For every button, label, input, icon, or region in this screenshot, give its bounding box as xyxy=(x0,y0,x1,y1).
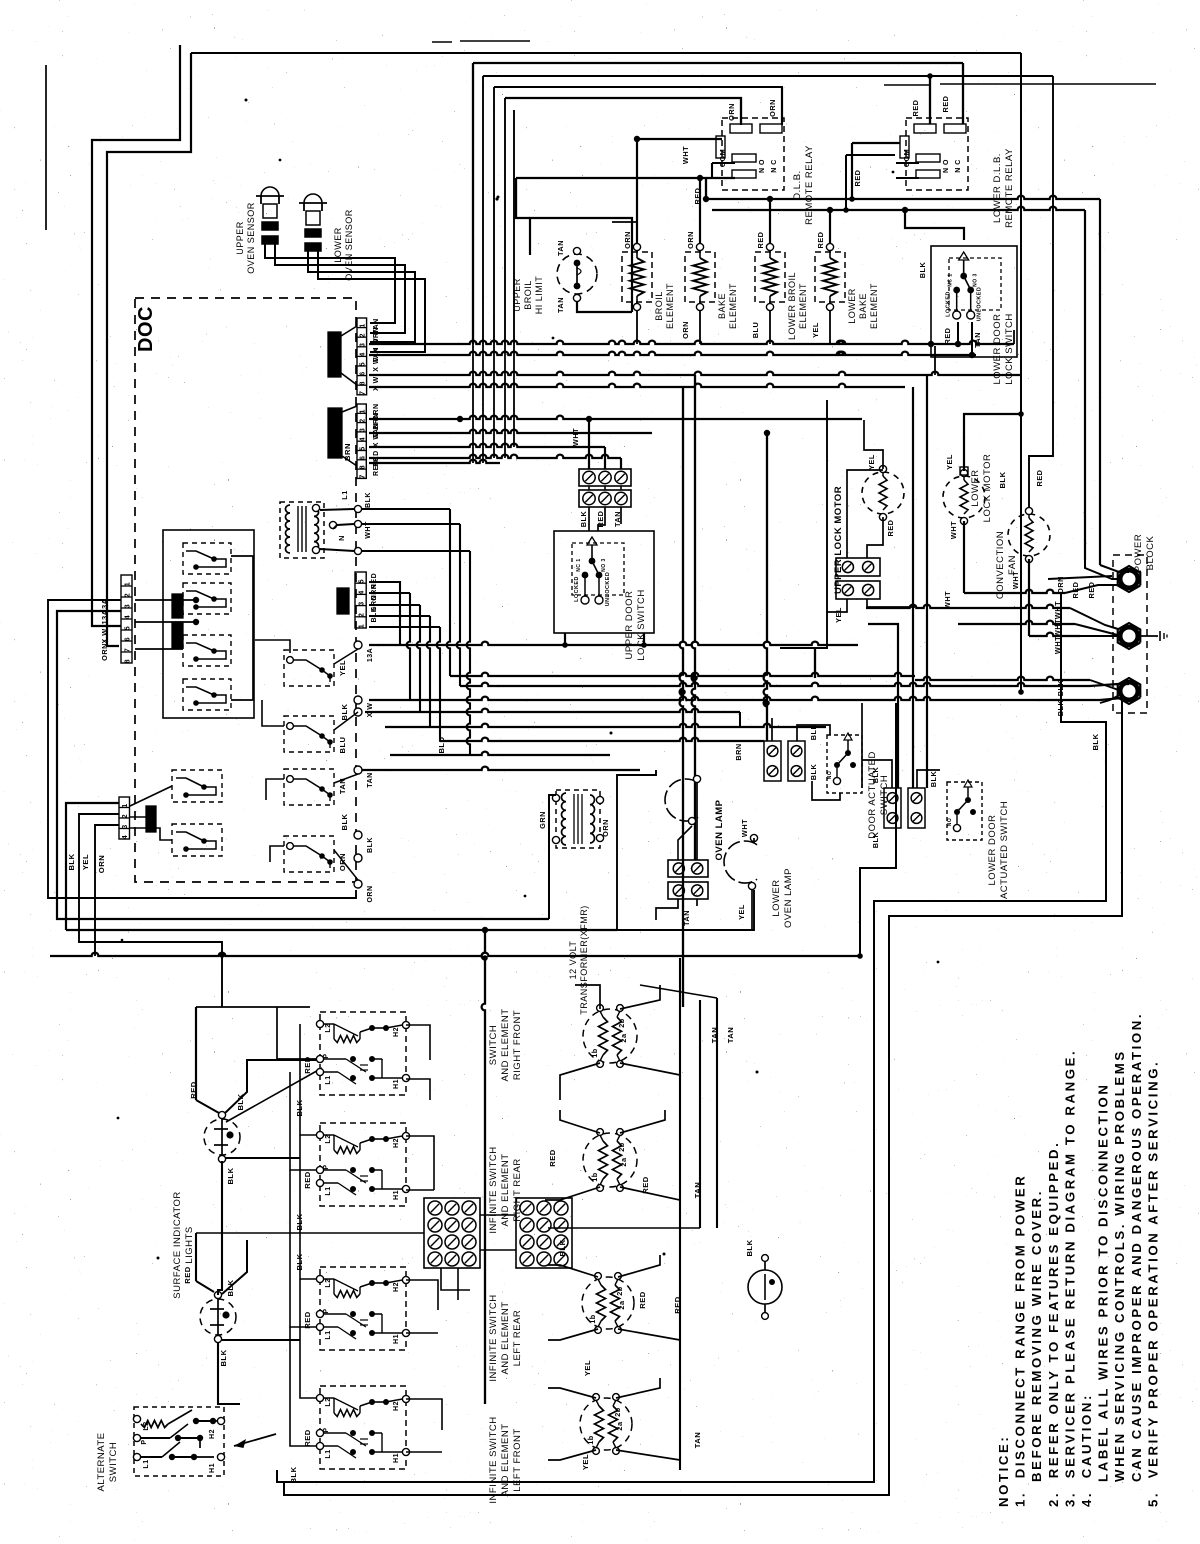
relay K4 (lower D.L.B. remote) xyxy=(906,118,968,190)
lower door lock switch xyxy=(931,246,1017,357)
wire relay bus pair A xyxy=(706,196,1100,199)
wire top nested run 2 xyxy=(472,63,474,344)
connector P1 shell xyxy=(328,332,341,377)
wire vert V7 xyxy=(692,375,695,860)
lower oven sensor xyxy=(304,194,322,203)
wire TS1 pin1 run xyxy=(48,600,356,898)
wire bus M9 xyxy=(362,767,640,770)
DOC switch S2 dashed box xyxy=(284,716,334,752)
alternate switch dashed box xyxy=(134,1407,224,1476)
wire vert V8 xyxy=(764,433,767,741)
connector P4 (DOC pins 5-1) xyxy=(355,572,366,628)
alternate switch pointer arrow xyxy=(234,1434,276,1446)
connector P2 (DOC pins 1-8) xyxy=(357,404,366,478)
wire S1 links xyxy=(255,640,290,653)
power block terminal L2 xyxy=(1118,678,1141,704)
wire lock sw leads xyxy=(957,322,959,344)
wire ldas vert xyxy=(861,703,863,788)
wire lamp links xyxy=(678,826,692,860)
connector P1 (DOC pins 1-8) xyxy=(357,318,367,395)
wire top nested run 3 xyxy=(482,76,484,344)
connector LMP-B xyxy=(668,882,708,899)
wire bus H3 xyxy=(369,372,1022,375)
oven lamp xyxy=(665,779,698,821)
alternate switch internals xyxy=(133,1415,140,1422)
connector UDL-B xyxy=(579,490,631,507)
DOC relay K1 contact 3 xyxy=(183,635,231,666)
wire ulm-b leads xyxy=(827,599,847,612)
wire S boxes to edge terminals xyxy=(334,649,358,664)
wire left stub xyxy=(45,65,47,230)
wire cascade P3-2 xyxy=(362,523,460,525)
wire sil diag1 xyxy=(226,1068,322,1122)
wire switch out xyxy=(564,633,566,645)
DOC control dashed box xyxy=(135,298,356,882)
wire hi-limit bottom xyxy=(577,302,632,312)
12V transformer terminals xyxy=(552,794,559,801)
wire bus H4 xyxy=(369,384,905,387)
wire WHT bus 2 xyxy=(866,605,1070,608)
wire sw right drops 3 xyxy=(406,1280,438,1310)
upper broil hi-limit thermostat xyxy=(557,254,597,294)
upper oven sensor xyxy=(261,187,279,196)
DOC transformer secondary coil xyxy=(314,508,319,550)
connector P2 shell xyxy=(328,408,342,458)
wire lower-bus feeders xyxy=(472,344,474,463)
DOC switch S4 dashed box xyxy=(284,836,334,872)
wire inner border (N feed) xyxy=(107,53,191,646)
relay K3 (D.L.B. remote) xyxy=(722,118,784,190)
wire cascade P3-1 xyxy=(362,508,450,510)
wire locksw top xyxy=(905,210,964,240)
DOC relay K1 feed bars xyxy=(172,594,183,618)
wire K4 coil leads xyxy=(929,76,931,124)
wire sw right drops 4 xyxy=(406,1399,442,1430)
wire top border run xyxy=(191,52,1021,54)
wire broil el top xyxy=(636,222,638,243)
DOC edge terminal 7 xyxy=(354,880,362,888)
ground symbol xyxy=(1137,635,1158,637)
wire vert V9 xyxy=(814,647,816,678)
connector P4 color strip xyxy=(337,588,349,614)
wire bus M4 xyxy=(369,697,1100,700)
surface indicator light 1 xyxy=(204,1119,240,1155)
DOC transformer core xyxy=(297,506,299,552)
upper broil hi-limit enclosure xyxy=(530,218,632,312)
wire vert 927 xyxy=(926,375,928,788)
wire element lf wires xyxy=(548,1388,596,1398)
wire sw right drops 2 xyxy=(406,1136,434,1190)
wire bake el drop xyxy=(699,311,701,344)
wire bus H1 xyxy=(369,341,1014,344)
DOC relay K1 contact 4 xyxy=(183,679,231,710)
upper lock motor xyxy=(862,472,904,514)
wire S2 links xyxy=(262,700,284,726)
surface element right rear xyxy=(583,1133,637,1187)
wire BLK bus 2 xyxy=(1100,694,1121,703)
wire bus H8 xyxy=(369,455,621,458)
wire UDL-A up1 xyxy=(588,419,590,469)
connector P3 terminals xyxy=(354,505,361,512)
wire K2 to TS2 links xyxy=(130,786,172,806)
wire element rr wires xyxy=(560,1110,600,1133)
wire lower bake top xyxy=(829,210,831,243)
DOC edge terminal 3 xyxy=(354,708,362,716)
surface element left rear xyxy=(582,1277,634,1329)
wire K4 NO lead xyxy=(896,162,919,164)
wire cascade P4-2 xyxy=(369,592,410,594)
connector ULM-B xyxy=(836,581,880,599)
junction dots xyxy=(219,952,225,958)
wire S4 links xyxy=(270,846,284,862)
lower bake element xyxy=(815,252,845,302)
notice text block xyxy=(996,1012,1160,1507)
wire cascade P3-3 xyxy=(362,550,470,552)
wire lower bake drop xyxy=(829,311,831,344)
oven lamp enclosure xyxy=(617,770,656,930)
wire element rf wires xyxy=(575,985,600,1009)
wire K1 outline link xyxy=(231,556,253,700)
wire ulm box xyxy=(780,400,827,648)
infinite switch SW4 xyxy=(320,1386,406,1469)
wire long divider xyxy=(50,953,860,956)
DOC transformer dashed box xyxy=(280,502,324,558)
wire bus H9 xyxy=(369,460,500,463)
wire frame right inner xyxy=(284,698,1122,1495)
wire vert 485 xyxy=(482,930,485,1404)
DOC relay block K1 outline xyxy=(163,530,254,718)
lower broil element xyxy=(755,252,785,302)
wire relay bus pair B xyxy=(712,207,1085,210)
lower oven lamp xyxy=(724,841,757,883)
wire cascade P4-1 xyxy=(369,582,400,645)
convection fan xyxy=(1008,514,1050,556)
DOC relay K1 contact 1 xyxy=(183,543,231,574)
wire frame right outer xyxy=(277,593,1106,1482)
surface element right front xyxy=(583,1009,637,1063)
wire cascade P4-5 xyxy=(369,626,440,628)
wire WHT bus 3 xyxy=(958,621,1075,624)
wire bus vertical E xyxy=(513,110,515,344)
wire vert 898 xyxy=(868,624,898,788)
wire bus H2 xyxy=(369,352,976,355)
terminal block TB-R xyxy=(516,1198,572,1268)
wire sil1 bottom xyxy=(218,1161,222,1295)
wire K4 NC lead xyxy=(896,177,919,179)
wire sw chain 2 xyxy=(290,1072,316,1170)
wire fan bottom xyxy=(1028,559,1030,636)
DOC lower relay K2 contact bars xyxy=(146,806,156,832)
DOC edge terminal 1 xyxy=(354,641,362,649)
wire lower sensor lead 1 xyxy=(308,247,415,342)
wire 1007 run xyxy=(196,1006,310,1008)
transformer enclosure xyxy=(549,795,556,919)
DOC transformer terminals xyxy=(312,504,319,511)
wire upper sensor lead 2 xyxy=(275,240,405,333)
wire K3 COM lead xyxy=(637,138,722,140)
broil element xyxy=(622,252,652,302)
wire TS2 BLK run xyxy=(66,803,119,930)
wire lower broil drop xyxy=(769,311,771,344)
wire das leads xyxy=(771,718,773,741)
power block dashed box xyxy=(1113,555,1147,713)
wire ldas leads xyxy=(862,760,892,788)
wire upper sensor lead 1 xyxy=(265,240,395,323)
lower door actuated switch xyxy=(884,788,901,828)
12V transformer core xyxy=(573,794,575,844)
wire red feeds to L1 xyxy=(1100,565,1129,572)
scan specks xyxy=(279,159,282,162)
wire WHT bus 1 xyxy=(964,590,1065,593)
power block terminal L1 xyxy=(1118,566,1141,592)
wire lower sensor lead 2 xyxy=(318,247,425,352)
wire lock-motor feed drop xyxy=(1029,76,1053,507)
surface indicator light 2 xyxy=(200,1299,236,1335)
wire top-right drop xyxy=(1020,53,1022,692)
power block terminal N xyxy=(1118,623,1141,649)
wire sil diag2 xyxy=(196,1281,214,1292)
wire ulm leads xyxy=(847,470,883,558)
bake element xyxy=(685,252,715,302)
upper door lock switch box xyxy=(554,531,654,633)
wire bus M8 xyxy=(390,752,610,755)
appliance receptacle xyxy=(748,1270,782,1304)
infinite switch SW2 xyxy=(320,1123,406,1206)
wire TS2 ORN run xyxy=(95,825,119,956)
wire top nested run 4 xyxy=(493,87,495,344)
wire vert 913 xyxy=(912,387,914,788)
wire sw right drops xyxy=(406,1025,430,1060)
DOC edge terminal 5 xyxy=(354,831,362,839)
DOC edge terminal 2 xyxy=(354,696,362,704)
wire broil top riser xyxy=(636,139,638,243)
wire tb links xyxy=(196,1232,424,1234)
wire sil2 bottom xyxy=(218,1343,240,1404)
wire TS1 pin2 run xyxy=(57,611,549,919)
wire S3 links xyxy=(266,779,284,800)
wire sw feeders A xyxy=(277,1007,316,1059)
wire bus H5 xyxy=(369,416,862,419)
infinite switch SW1 xyxy=(320,1012,406,1095)
infinite switch SW3 xyxy=(320,1267,406,1350)
12V transformer secondary xyxy=(590,795,595,843)
DOC switch S3 dashed box xyxy=(284,769,334,805)
wire sw chain 1 xyxy=(300,1024,316,1135)
wire bus H7 xyxy=(369,444,605,447)
lower lock motor xyxy=(943,476,985,518)
connector UDL-A xyxy=(579,469,631,486)
wire bus M5 xyxy=(365,709,740,712)
terminal block TB-L xyxy=(424,1198,480,1268)
DOC edge terminal 6 xyxy=(354,854,362,862)
DOC relay K2 contact 1 xyxy=(172,770,222,802)
connector ULM-A xyxy=(836,558,880,576)
wire K1 to TS1 links xyxy=(135,599,196,601)
wire vert V6 xyxy=(680,387,683,1007)
wire TS2 YEL run xyxy=(79,814,222,1007)
wire bus M2 xyxy=(450,673,915,676)
wire bus M3 xyxy=(460,683,1090,686)
wire K3 coil leads xyxy=(781,87,783,124)
wire bus risers right xyxy=(934,346,936,375)
wire 930 run xyxy=(66,929,617,931)
wire ulm top xyxy=(864,420,883,469)
wire cascade P4-4 xyxy=(369,615,430,617)
wire top nested run 5 xyxy=(504,98,506,344)
wire bus M7 xyxy=(440,738,764,741)
wire cascade P4-3 xyxy=(369,604,420,606)
wire bake el top xyxy=(699,178,701,243)
wire lamp feed xyxy=(656,899,678,920)
wire K4 COM lead xyxy=(852,142,900,144)
wire bus M1 xyxy=(369,642,858,645)
wire broil el drop xyxy=(636,311,638,344)
connector TS2 (1-4) xyxy=(119,797,130,839)
door actuated switch xyxy=(764,741,781,781)
wire UDL leads xyxy=(588,486,590,490)
wire bus H6 xyxy=(369,430,652,433)
wire outer border (L1 feed) xyxy=(92,45,180,626)
wire sil1 top xyxy=(196,1100,219,1113)
surface element left front xyxy=(580,1398,632,1450)
wire right verticals xyxy=(679,958,681,1470)
wire WHT bus 4 xyxy=(1029,633,1080,636)
connector TS1 (1-8) xyxy=(121,575,132,663)
wire BLK bus 1 xyxy=(915,677,1090,680)
wire bus M6 xyxy=(385,724,826,727)
12V transformer dashed box xyxy=(556,790,600,848)
12V transformer primary xyxy=(562,793,567,845)
wire UDL-B to switch xyxy=(588,507,590,531)
DOC transformer primary coil xyxy=(286,505,291,553)
DOC relay K1 contact 2 xyxy=(183,583,231,614)
wire tan long xyxy=(640,985,717,998)
wire lower broil top xyxy=(769,199,771,243)
wire llm top xyxy=(964,414,1021,471)
wire tb down xyxy=(441,1268,470,1290)
DOC relay K2 contact 2 xyxy=(172,824,222,856)
top scan dashes xyxy=(884,84,930,86)
DOC edge terminal 4 xyxy=(354,766,362,774)
connector LMP-A xyxy=(668,860,708,877)
DOC switch S1 dashed box xyxy=(284,650,334,686)
wire element lr wires xyxy=(548,1265,598,1277)
